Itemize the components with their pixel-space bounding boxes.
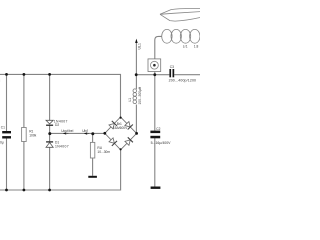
svg-text:100...500µH: 100...500µH — [138, 86, 142, 104]
svg-text:200...400p/1200: 200...400p/1200 — [169, 78, 197, 82]
bridge diode left-top — [108, 121, 117, 130]
bridge rectifier Br1 — [105, 117, 137, 150]
svg-text:5...16µ/400V: 5...16µ/400V — [151, 141, 172, 145]
ground bar under RU — [88, 176, 97, 178]
wire L1 branch lower to bridge — [135, 105, 137, 134]
svg-text:1N4007: 1N4007 — [55, 145, 69, 149]
wire C2 branch lower — [154, 138, 156, 187]
lamp indicator box symbol — [148, 59, 161, 72]
arrow Ub/l (points left) — [84, 132, 89, 134]
svg-text:Ub/l: Ub/l — [82, 129, 88, 133]
svg-text:10...30m: 10...30m — [97, 150, 110, 154]
svg-text:D1: D1 — [55, 140, 59, 144]
node dot R1/bottom rail — [23, 189, 26, 192]
node dot bridge bottom corner — [120, 148, 122, 150]
node dot bridge right corner — [135, 132, 138, 135]
wire R1 branch lower — [23, 142, 25, 191]
wire right bus left of C3 — [136, 74, 169, 76]
node dot RU junction — [91, 132, 94, 135]
node dot R1/top rail — [23, 73, 26, 76]
wire C1 branch upper — [6, 74, 8, 131]
svg-text:L1: L1 — [128, 98, 132, 102]
capacitor C1 — [0, 126, 11, 145]
node dot C1/bottom rail — [5, 189, 8, 192]
svg-text:C3: C3 — [170, 65, 174, 69]
svg-text:RU: RU — [97, 146, 102, 150]
wire D2-D1 middle segment — [49, 126, 51, 142]
wire bottom rail (mains N) — [0, 150, 121, 190]
arrow Uout/bel (points left) — [63, 132, 69, 134]
wire C1 branch lower — [6, 139, 8, 191]
svg-text:Lr1: Lr1 — [183, 45, 188, 49]
wire top rail (mains L) — [0, 74, 121, 117]
wire right bus right of C3 — [174, 74, 200, 76]
svg-text:15A/600V: 15A/600V — [113, 126, 128, 130]
arrowhead UL1 (points up) — [135, 39, 138, 43]
wire D1 branch lower — [49, 147, 51, 190]
svg-text:C1: C1 — [1, 126, 5, 130]
inductor L1 coil — [133, 89, 137, 104]
svg-text:Uout/bel: Uout/bel — [61, 129, 73, 133]
capacitor C3 — [169, 65, 197, 82]
node dot bridge top corner — [120, 117, 122, 119]
diode D2 1N4007 — [46, 119, 68, 127]
node dot D2/top rail — [48, 73, 51, 76]
svg-text:100k: 100k — [29, 133, 36, 137]
svg-text:D2: D2 — [55, 123, 59, 127]
resistor R1 100k — [22, 128, 37, 142]
lamp tube bottom edge — [160, 14, 200, 21]
wire D2 branch upper — [49, 74, 51, 120]
resistor RU 10...30m — [90, 142, 110, 158]
wire node Uout horizontal — [50, 132, 105, 134]
wire L1 branch upper — [135, 74, 137, 89]
node dot bridge left corner — [103, 132, 106, 135]
bridge diode top-right — [124, 121, 133, 130]
svg-text:1.8: 1.8 — [194, 45, 199, 49]
svg-text:C2: C2 — [156, 127, 160, 131]
node dot Uout junction — [48, 132, 51, 135]
svg-text:Br1: Br1 — [117, 122, 122, 126]
node dot D1/bottom rail — [48, 189, 51, 192]
wire arrow stem — [135, 42, 137, 74]
svg-text:UL1: UL1 — [138, 43, 142, 49]
wire C2 branch upper — [154, 75, 156, 131]
wire RU branch upper — [92, 133, 94, 142]
bridge diode left-bottom — [108, 137, 117, 146]
bridge diode bottom-right — [124, 137, 133, 146]
node dot C1/top rail — [5, 73, 8, 76]
diode D1 1N4007 — [46, 140, 69, 148]
lamp tube inner edge — [160, 12, 200, 15]
wire R1 branch upper — [23, 74, 25, 127]
lamp tube outline top edge — [160, 8, 200, 14]
ground bar under C2 — [151, 187, 161, 189]
node dot L1 branch/right bus — [135, 73, 138, 76]
wire box symbol to coil lead — [155, 36, 162, 59]
wire box symbol lower lead — [154, 72, 156, 75]
node dot C2 branch/right bus — [153, 73, 156, 76]
wire RU branch lower — [92, 158, 94, 176]
inductor Lr1 top coil — [162, 29, 200, 43]
capacitor C2 — [150, 127, 171, 145]
svg-text:0µ: 0µ — [0, 140, 4, 144]
